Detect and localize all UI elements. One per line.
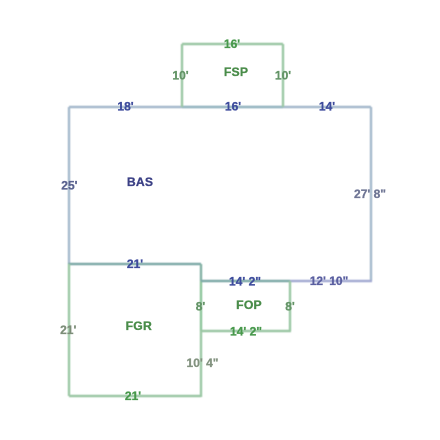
wire FGR top edge shared with BAS bbox=[68, 263, 201, 265]
wire FSP left edge bbox=[181, 44, 183, 107]
wire FOP bottom edge bbox=[201, 330, 291, 332]
svg-text:BAS: BAS bbox=[127, 175, 153, 189]
wire FGR right edge lower bbox=[200, 331, 202, 397]
svg-text:8': 8' bbox=[285, 300, 295, 314]
svg-text:21': 21' bbox=[125, 389, 141, 403]
wire FGR right edge upper shared with BAS notch bbox=[200, 264, 202, 281]
svg-text:8': 8' bbox=[196, 300, 206, 314]
svg-text:14' 2": 14' 2" bbox=[229, 274, 261, 288]
svg-text:FGR: FGR bbox=[126, 319, 152, 333]
wire FGR right edge middle shared with FOP left bbox=[200, 281, 202, 331]
wire BAS top edge overlap with FSP bottom bbox=[182, 106, 283, 108]
svg-text:27' 8": 27' 8" bbox=[354, 187, 386, 201]
wire BAS bottom right segment bbox=[290, 280, 372, 282]
wire BAS left edge bbox=[68, 107, 70, 264]
wire FGR left edge bbox=[68, 264, 70, 396]
svg-text:FSP: FSP bbox=[224, 65, 248, 79]
svg-text:21': 21' bbox=[127, 257, 143, 271]
wire FOP right edge bbox=[289, 281, 291, 331]
wire BAS top edge bbox=[69, 106, 371, 108]
svg-text:14': 14' bbox=[319, 100, 335, 114]
svg-text:16': 16' bbox=[224, 37, 240, 51]
wire FSP right edge bbox=[282, 44, 284, 107]
svg-text:10': 10' bbox=[275, 69, 291, 83]
wire FOP top edge shared with BAS bottom bbox=[201, 280, 290, 282]
wire FSP top edge bbox=[182, 43, 283, 45]
wire FGR bottom edge bbox=[69, 395, 201, 397]
svg-text:10' 4": 10' 4" bbox=[187, 356, 219, 370]
svg-text:18': 18' bbox=[117, 100, 133, 114]
svg-text:12' 10": 12' 10" bbox=[310, 274, 349, 288]
svg-text:14' 2": 14' 2" bbox=[230, 325, 262, 339]
svg-text:10': 10' bbox=[172, 69, 188, 83]
wire BAS right edge bbox=[370, 107, 372, 281]
svg-text:FOP: FOP bbox=[236, 298, 262, 312]
svg-text:21': 21' bbox=[60, 323, 76, 337]
svg-text:16': 16' bbox=[225, 100, 241, 114]
svg-text:25': 25' bbox=[61, 179, 77, 193]
